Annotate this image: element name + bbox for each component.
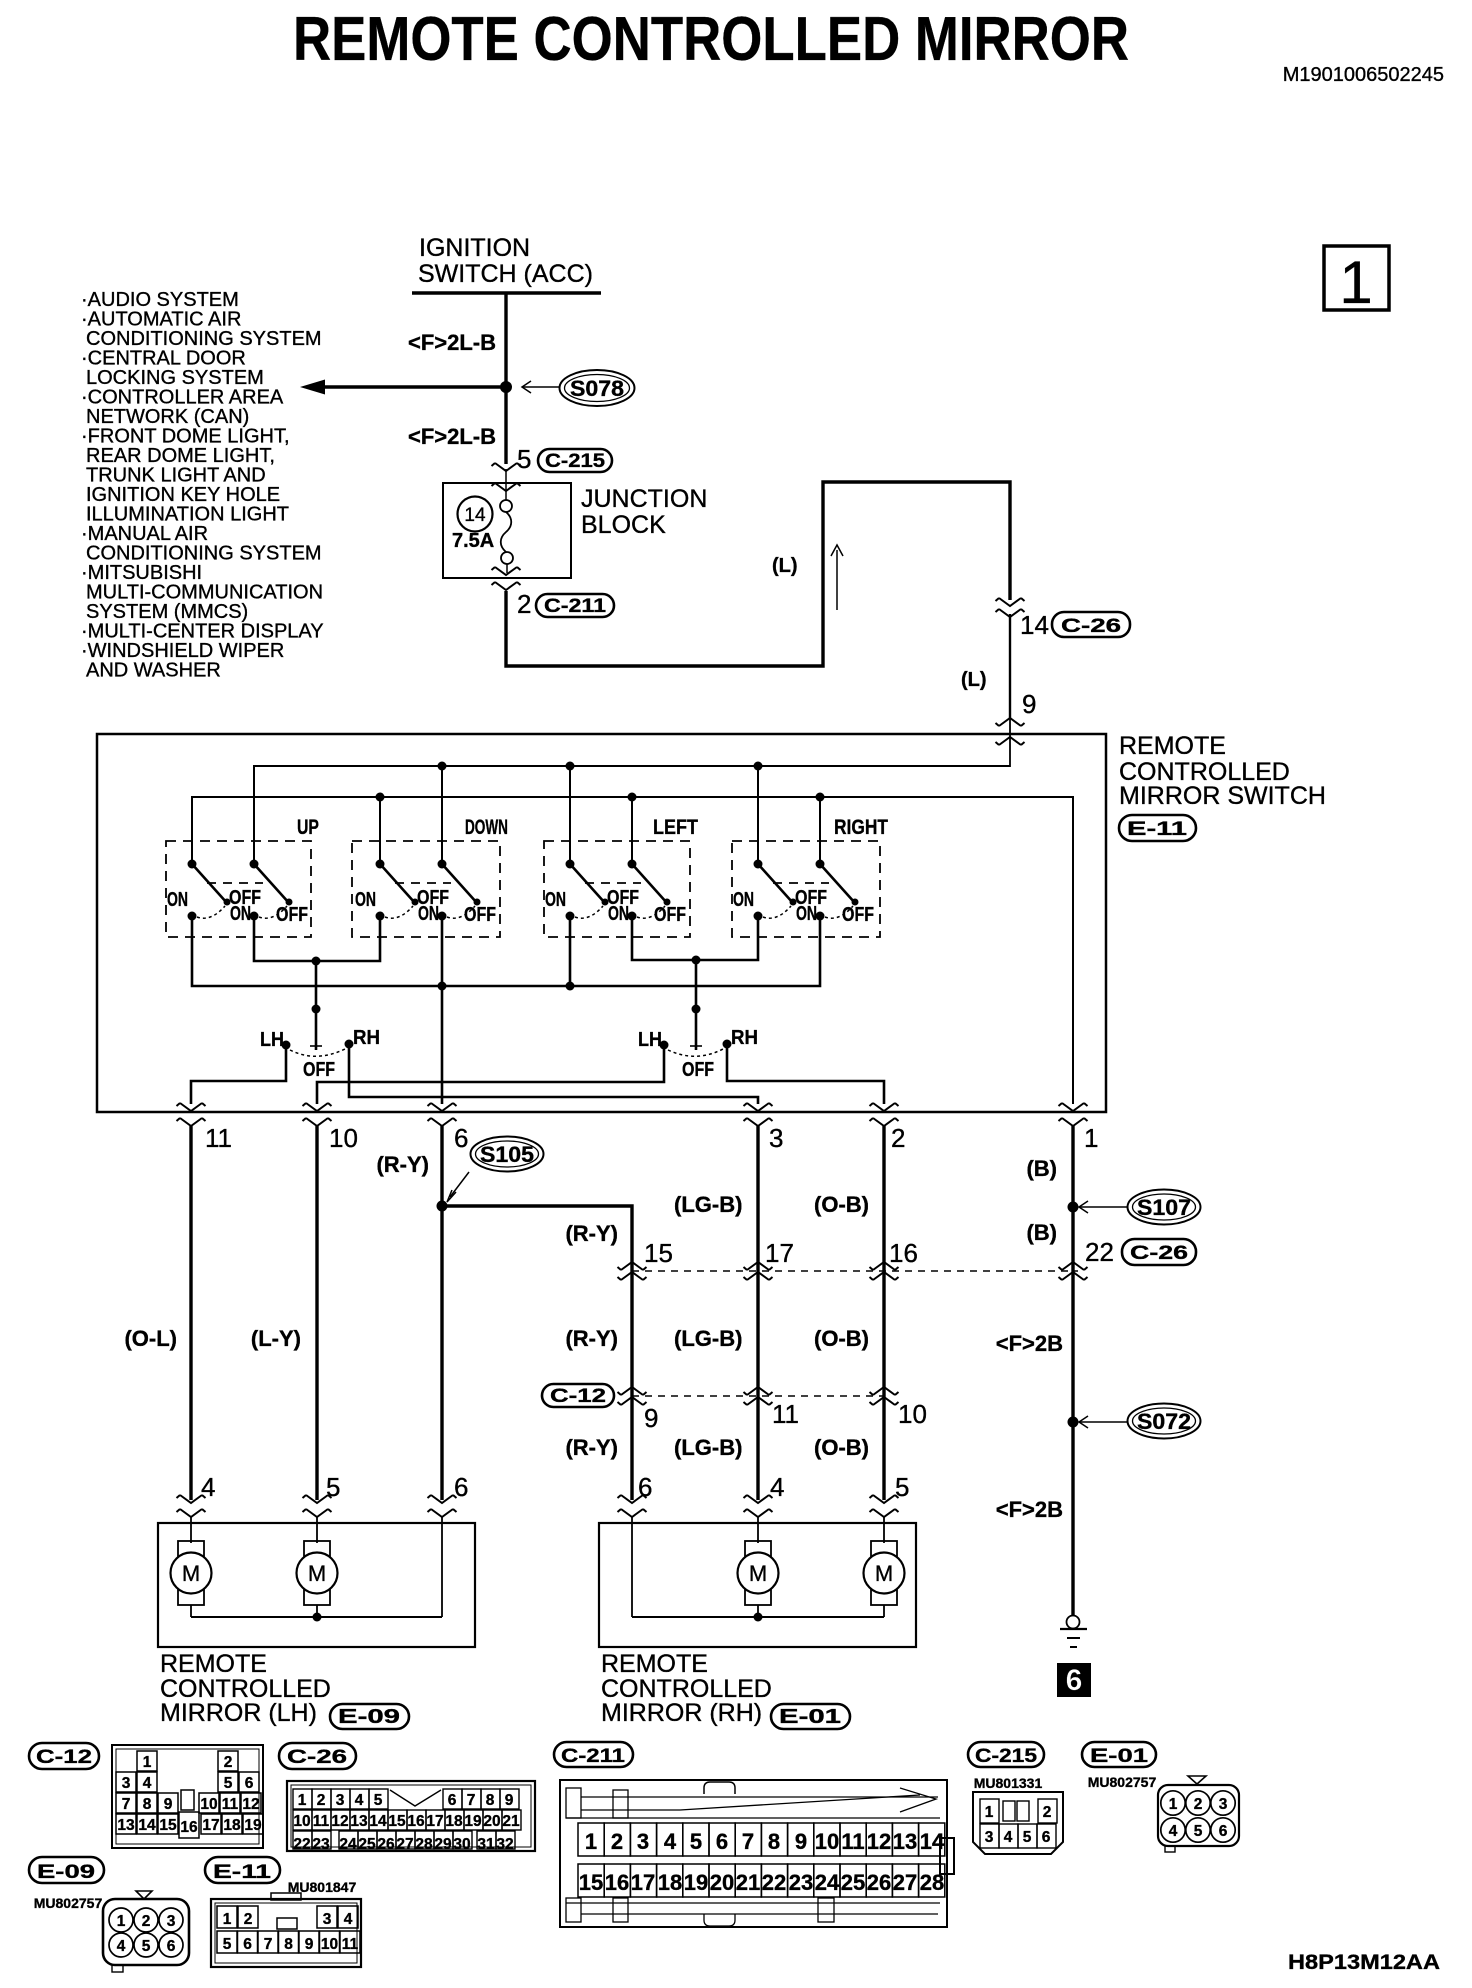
junction block box — [443, 483, 571, 578]
svg-text:9: 9 — [305, 1936, 314, 1953]
svg-text:1: 1 — [1339, 249, 1372, 316]
pin 11 chevrons — [177, 1103, 206, 1111]
svg-text:M: M — [182, 1561, 200, 1586]
svg-text:C-26: C-26 — [1061, 616, 1121, 637]
svg-text:MIRROR (RH): MIRROR (RH) — [601, 1699, 762, 1727]
svg-text:12: 12 — [331, 1813, 348, 1830]
svg-text:19: 19 — [244, 1817, 262, 1834]
svg-text:24: 24 — [815, 1870, 840, 1895]
svg-text:LH: LH — [638, 1029, 662, 1051]
svg-text:3: 3 — [122, 1775, 131, 1792]
svg-text:2: 2 — [317, 1792, 326, 1809]
svg-text:12: 12 — [867, 1829, 891, 1854]
svg-text:15: 15 — [159, 1817, 177, 1834]
svg-text:(B): (B) — [1026, 1156, 1057, 1181]
svg-text:12: 12 — [242, 1796, 259, 1813]
LEFT switch pole 1 — [545, 860, 639, 921]
svg-text:(R-Y): (R-Y) — [565, 1435, 618, 1460]
svg-text:5: 5 — [223, 1936, 232, 1953]
remote controlled mirror LH box E-09 — [158, 1523, 475, 1647]
svg-text:ON: ON — [230, 903, 251, 925]
remote controlled mirror switch box E-11 — [97, 734, 1106, 1112]
svg-text:2: 2 — [224, 1754, 233, 1771]
svg-text:REMOTE: REMOTE — [1119, 732, 1226, 760]
svg-text:8: 8 — [768, 1829, 780, 1854]
svg-text:10: 10 — [815, 1829, 839, 1854]
LH/RH selector switch 1 — [260, 1005, 380, 1082]
current direction arrow — [836, 550, 838, 610]
svg-text:11: 11 — [205, 1123, 232, 1153]
wire (LG-B) pin3 to RH mirror — [756, 1126, 759, 1500]
svg-text:6: 6 — [245, 1775, 254, 1792]
splice S072 — [1068, 1417, 1079, 1428]
svg-text:8: 8 — [284, 1936, 293, 1953]
svg-text:13: 13 — [350, 1813, 368, 1830]
svg-text:C-26: C-26 — [287, 1747, 347, 1768]
connector C-12 crossing (dashed) — [542, 1384, 614, 1407]
wire selector1 RH to pin 3 — [349, 1048, 758, 1104]
wire selector2 RH to pin 2 — [727, 1048, 884, 1104]
C-26 pin 17 chevrons — [744, 1262, 773, 1270]
svg-text:RH: RH — [731, 1027, 758, 1049]
svg-text:14: 14 — [138, 1817, 156, 1834]
svg-text:6: 6 — [1219, 1823, 1228, 1840]
svg-text:<F>2B: <F>2B — [996, 1331, 1063, 1356]
svg-text:3: 3 — [323, 1911, 332, 1928]
svg-text:E-11: E-11 — [213, 1862, 272, 1883]
svg-text:REMOTE: REMOTE — [601, 1650, 708, 1678]
connector E-09 pinout — [29, 1857, 189, 1972]
RIGHT switch unit — [732, 816, 888, 937]
svg-text:2: 2 — [517, 589, 531, 619]
LEFT/RIGHT output junction — [632, 916, 758, 960]
motor M vertical RH — [738, 1541, 779, 1617]
svg-text:LH: LH — [260, 1029, 284, 1051]
connector chevrons out of junction block — [492, 567, 521, 575]
C-12 pin 10 chevrons — [870, 1387, 899, 1395]
svg-text:ON: ON — [545, 889, 566, 911]
svg-text:10: 10 — [200, 1796, 217, 1813]
svg-text:11: 11 — [222, 1796, 239, 1813]
svg-text:20: 20 — [483, 1813, 500, 1830]
svg-text:11: 11 — [841, 1829, 864, 1854]
connector chevrons into mirror switch pin 9 — [996, 718, 1025, 726]
svg-text:(B): (B) — [1026, 1220, 1057, 1245]
svg-text:JUNCTION: JUNCTION — [581, 485, 707, 513]
splice S105 — [437, 1201, 448, 1212]
svg-text:27: 27 — [396, 1836, 413, 1853]
connector C-26 pinout — [279, 1743, 535, 1853]
LH mirror common bus — [191, 1616, 442, 1618]
svg-text:<F>2L-B: <F>2L-B — [408, 424, 496, 449]
svg-text:30: 30 — [453, 1836, 470, 1853]
svg-text:17: 17 — [631, 1870, 655, 1895]
svg-text:2: 2 — [611, 1829, 623, 1854]
bus wire to pin 1 — [192, 797, 1073, 1104]
wire selector2 LH to pin 10 — [317, 1049, 664, 1104]
svg-text:22: 22 — [762, 1870, 786, 1895]
svg-text:(O-L): (O-L) — [124, 1326, 177, 1351]
svg-text:16: 16 — [180, 1819, 198, 1836]
RH mirror common bus — [632, 1616, 884, 1618]
svg-text:1: 1 — [143, 1754, 152, 1771]
svg-text:2: 2 — [244, 1911, 253, 1928]
svg-text:LEFT: LEFT — [653, 816, 698, 839]
svg-text:15: 15 — [579, 1870, 603, 1895]
ground — [1067, 1616, 1080, 1629]
svg-text:17: 17 — [765, 1238, 794, 1268]
node — [376, 793, 385, 802]
svg-text:<F>2L-B: <F>2L-B — [408, 330, 496, 355]
svg-text:10: 10 — [329, 1123, 358, 1153]
svg-text:(O-B): (O-B) — [814, 1192, 869, 1217]
svg-text:3: 3 — [1219, 1796, 1228, 1813]
svg-text:MU802757: MU802757 — [34, 1895, 103, 1911]
svg-text:4: 4 — [117, 1938, 126, 1955]
svg-text:(LG-B): (LG-B) — [674, 1435, 742, 1460]
node — [566, 762, 575, 771]
svg-text:C-211: C-211 — [561, 1746, 626, 1767]
svg-text:9: 9 — [505, 1792, 514, 1809]
wire (R-Y) pin6 — [440, 1126, 443, 1500]
svg-text:26: 26 — [867, 1870, 891, 1895]
svg-text:29: 29 — [434, 1836, 452, 1853]
svg-text:4: 4 — [355, 1792, 364, 1809]
connector E-11 pinout — [205, 1857, 361, 1967]
svg-text:7: 7 — [742, 1829, 754, 1854]
svg-text:(L): (L) — [772, 555, 798, 577]
svg-text:14: 14 — [369, 1813, 387, 1830]
chevrons into RH mirror — [618, 1495, 647, 1503]
svg-text:ON: ON — [167, 889, 188, 911]
svg-text:26: 26 — [377, 1836, 395, 1853]
svg-text:OFF: OFF — [303, 1059, 335, 1081]
svg-text:14: 14 — [920, 1829, 945, 1854]
C-26 pin 22 chevrons — [1059, 1262, 1088, 1270]
splice S107 — [1068, 1202, 1079, 1213]
page number box 1 — [1324, 246, 1389, 310]
svg-text:ON: ON — [418, 903, 439, 925]
svg-text:S107: S107 — [1137, 1195, 1191, 1220]
node — [754, 762, 763, 771]
svg-text:C-12: C-12 — [550, 1386, 606, 1407]
svg-text:M1901006502245: M1901006502245 — [1283, 64, 1444, 86]
svg-text:ON: ON — [733, 889, 754, 911]
svg-text:OFF: OFF — [654, 904, 686, 926]
pin 1 chevrons — [1059, 1103, 1088, 1111]
wire DOWN pole2 common to pin 6 — [441, 916, 444, 1104]
svg-text:4: 4 — [664, 1829, 677, 1854]
svg-text:(R-Y): (R-Y) — [376, 1152, 429, 1177]
svg-text:ON: ON — [796, 903, 817, 925]
svg-text:5: 5 — [224, 1775, 233, 1792]
svg-text:7: 7 — [122, 1796, 131, 1813]
svg-text:(LG-B): (LG-B) — [674, 1326, 742, 1351]
svg-text:(R-Y): (R-Y) — [565, 1326, 618, 1351]
svg-text:SWITCH (ACC): SWITCH (ACC) — [418, 260, 593, 288]
svg-text:MIRROR (LH): MIRROR (LH) — [160, 1699, 317, 1727]
svg-text:6: 6 — [448, 1792, 457, 1809]
svg-text:6: 6 — [716, 1829, 728, 1854]
wires into RH mirror — [631, 1517, 633, 1617]
wire feed LEFT pole 2 — [631, 797, 633, 864]
svg-text:E-11: E-11 — [1127, 819, 1188, 840]
svg-text:(LG-B): (LG-B) — [674, 1192, 742, 1217]
svg-text:22: 22 — [1085, 1237, 1114, 1267]
wire (B) pin1 to ground — [1071, 1126, 1074, 1616]
connector C-215 pinout — [968, 1742, 1063, 1854]
wire (R-Y) branch to RH mirror — [442, 1206, 632, 1500]
svg-text:6: 6 — [1042, 1829, 1051, 1846]
svg-text:UP: UP — [297, 816, 319, 839]
svg-text:OFF: OFF — [276, 904, 308, 926]
fuse 14 7.5A — [500, 500, 512, 512]
svg-text:2: 2 — [142, 1913, 151, 1930]
C-12 pin 9 chevrons — [618, 1387, 647, 1395]
svg-text:2: 2 — [1043, 1804, 1052, 1821]
svg-text:1: 1 — [985, 1804, 994, 1821]
svg-text:11: 11 — [342, 1936, 359, 1953]
svg-text:<F>2B: <F>2B — [996, 1497, 1063, 1522]
node — [628, 793, 637, 802]
svg-text:6: 6 — [454, 1123, 468, 1153]
svg-text:E-09: E-09 — [37, 1862, 95, 1883]
svg-text:13: 13 — [893, 1829, 917, 1854]
wire LEFT pole1 common to bus — [569, 916, 572, 986]
svg-text:5: 5 — [326, 1472, 340, 1502]
ground reference 6 — [1057, 1663, 1091, 1697]
svg-text:(O-B): (O-B) — [814, 1326, 869, 1351]
svg-text:8: 8 — [486, 1792, 495, 1809]
svg-text:17: 17 — [202, 1817, 219, 1834]
wire feed LEFT pole 1 — [569, 766, 571, 864]
connector chevrons C-26 pin 14 — [996, 598, 1025, 606]
LEFT switch pole 2 — [608, 860, 686, 927]
svg-text:19: 19 — [684, 1870, 708, 1895]
svg-text:4: 4 — [1004, 1829, 1013, 1846]
svg-text:21: 21 — [502, 1813, 520, 1830]
svg-text:M: M — [308, 1561, 326, 1586]
svg-text:RIGHT: RIGHT — [834, 816, 888, 839]
svg-text:7: 7 — [467, 1792, 476, 1809]
svg-text:25: 25 — [358, 1836, 376, 1853]
chevrons into LH mirror — [177, 1495, 206, 1503]
svg-text:17: 17 — [426, 1813, 443, 1830]
connector chevrons into junction block — [492, 463, 521, 471]
svg-text:10: 10 — [898, 1399, 927, 1429]
svg-text:14: 14 — [464, 505, 486, 526]
svg-text:H8P13M12AA: H8P13M12AA — [1288, 1951, 1440, 1974]
svg-text:MU801331: MU801331 — [974, 1775, 1043, 1791]
UP/DOWN output junction — [254, 916, 380, 961]
svg-text:OFF: OFF — [682, 1059, 714, 1081]
svg-text:5: 5 — [1023, 1829, 1032, 1846]
svg-text:5: 5 — [1194, 1823, 1203, 1840]
svg-text:E-01: E-01 — [1090, 1746, 1149, 1767]
svg-text:16: 16 — [889, 1238, 918, 1268]
svg-text:22: 22 — [293, 1836, 310, 1853]
RIGHT switch pole 1 — [733, 860, 827, 921]
svg-text:E-09: E-09 — [338, 1706, 400, 1728]
svg-text:5: 5 — [517, 444, 531, 474]
svg-text:18: 18 — [445, 1813, 463, 1830]
node — [438, 762, 447, 771]
splice S078 callout — [523, 386, 560, 388]
wires into LH mirror — [190, 1517, 192, 1543]
DOWN switch unit — [352, 816, 508, 937]
svg-text:21: 21 — [736, 1870, 760, 1895]
RIGHT switch pole 2 — [796, 860, 874, 927]
svg-text:10: 10 — [321, 1936, 338, 1953]
svg-text:7.5A: 7.5A — [452, 530, 494, 552]
C-26 pin 15 chevrons — [618, 1262, 647, 1270]
LH/RH selector switch 2 — [638, 1005, 758, 1082]
svg-text:C-12: C-12 — [36, 1747, 92, 1768]
LEFT switch unit — [544, 816, 698, 937]
svg-text:4: 4 — [344, 1911, 353, 1928]
svg-text:24: 24 — [339, 1836, 357, 1853]
svg-text:E-01: E-01 — [779, 1706, 841, 1728]
svg-text:(L-Y): (L-Y) — [251, 1326, 301, 1351]
svg-text:18: 18 — [658, 1870, 682, 1895]
svg-text:C-211: C-211 — [544, 596, 607, 617]
svg-text:AND WASHER: AND WASHER — [86, 660, 221, 682]
svg-text:18: 18 — [223, 1817, 241, 1834]
svg-text:8: 8 — [143, 1796, 152, 1813]
node — [816, 793, 825, 802]
svg-text:15: 15 — [644, 1238, 673, 1268]
svg-text:(R-Y): (R-Y) — [565, 1221, 618, 1246]
svg-text:OFF: OFF — [464, 904, 496, 926]
wire (L) to mirror switch pin 9 — [1009, 614, 1011, 719]
svg-text:S078: S078 — [570, 376, 624, 401]
svg-text:9: 9 — [644, 1403, 658, 1433]
pin 10 chevrons — [303, 1103, 332, 1111]
svg-text:1: 1 — [117, 1913, 126, 1930]
connector E-01 pinout — [1082, 1742, 1239, 1852]
svg-text:28: 28 — [920, 1870, 944, 1895]
wire selector1 LH to pin 11 — [191, 1049, 286, 1104]
wire feed RIGHT pole 1 — [757, 766, 759, 864]
pin 2 chevrons — [870, 1103, 899, 1111]
svg-text:15: 15 — [388, 1813, 406, 1830]
svg-text:OFF: OFF — [842, 904, 874, 926]
wire feed DOWN pole 1 — [379, 797, 381, 864]
DOWN switch pole 2 — [418, 860, 496, 927]
wire (O-L) pin11 to LH mirror — [189, 1126, 192, 1500]
svg-text:6: 6 — [243, 1936, 252, 1953]
wire from ignition switch — [504, 293, 507, 464]
svg-text:4: 4 — [201, 1472, 215, 1502]
svg-text:IGNITION: IGNITION — [419, 234, 530, 262]
svg-text:3: 3 — [167, 1913, 176, 1930]
wire (L-Y) pin10 to LH mirror — [315, 1126, 318, 1500]
svg-text:1: 1 — [1169, 1796, 1178, 1813]
connector C-26 crossing (dashed) — [632, 1270, 1078, 1272]
svg-text:3: 3 — [769, 1123, 783, 1153]
svg-text:M: M — [875, 1561, 893, 1586]
svg-text:14: 14 — [1020, 610, 1049, 640]
svg-text:27: 27 — [893, 1870, 917, 1895]
svg-text:REMOTE: REMOTE — [160, 1650, 267, 1678]
svg-text:16: 16 — [605, 1870, 629, 1895]
svg-text:1: 1 — [1084, 1123, 1098, 1153]
svg-text:4: 4 — [1169, 1823, 1178, 1840]
svg-text:M: M — [749, 1561, 767, 1586]
svg-text:3: 3 — [637, 1829, 649, 1854]
svg-text:S105: S105 — [480, 1142, 534, 1167]
svg-text:1: 1 — [298, 1792, 307, 1809]
common bus to pin 6 — [192, 916, 820, 986]
UP switch unit — [166, 816, 319, 937]
svg-text:19: 19 — [464, 1813, 482, 1830]
motor M horizontal LH — [297, 1541, 338, 1617]
svg-text:31: 31 — [477, 1836, 495, 1853]
svg-text:(O-B): (O-B) — [814, 1435, 869, 1460]
wire (O-B) pin2 to RH mirror — [882, 1126, 885, 1500]
svg-text:3: 3 — [336, 1792, 345, 1809]
svg-text:13: 13 — [117, 1817, 135, 1834]
svg-text:16: 16 — [407, 1813, 425, 1830]
svg-text:DOWN: DOWN — [465, 816, 508, 839]
svg-text:BLOCK: BLOCK — [581, 511, 666, 539]
connector C-211 pinout — [554, 1742, 954, 1927]
UP switch pole 1 — [167, 860, 261, 921]
svg-text:MIRROR SWITCH: MIRROR SWITCH — [1119, 782, 1326, 810]
svg-text:2: 2 — [1194, 1796, 1203, 1813]
C-26 pin 16 chevrons — [870, 1262, 899, 1270]
svg-text:9: 9 — [795, 1829, 807, 1854]
motor M horizontal RH — [864, 1541, 905, 1617]
svg-text:6: 6 — [1066, 1664, 1083, 1697]
C-12 pin 11 chevrons — [744, 1387, 773, 1395]
wire feed RIGHT pole 2 — [819, 797, 821, 864]
node — [438, 982, 447, 991]
svg-text:5: 5 — [690, 1829, 702, 1854]
svg-text:1: 1 — [585, 1829, 597, 1854]
svg-text:S072: S072 — [1137, 1409, 1191, 1434]
svg-text:C-215: C-215 — [975, 1746, 1038, 1767]
svg-text:23: 23 — [789, 1870, 813, 1895]
wire feed DOWN pole 2 — [441, 766, 443, 864]
pin 3 chevrons — [744, 1103, 773, 1111]
svg-text:9: 9 — [164, 1796, 173, 1813]
svg-text:C-215: C-215 — [545, 451, 606, 472]
svg-text:3: 3 — [985, 1829, 994, 1846]
svg-text:28: 28 — [415, 1836, 433, 1853]
svg-text:25: 25 — [841, 1870, 865, 1895]
svg-text:C-26: C-26 — [1130, 1243, 1188, 1264]
svg-text:10: 10 — [293, 1813, 310, 1830]
svg-text:ON: ON — [355, 889, 376, 911]
svg-text:4: 4 — [143, 1775, 152, 1792]
svg-text:23: 23 — [312, 1836, 330, 1853]
wire branch to other systems — [322, 385, 506, 388]
svg-text:32: 32 — [496, 1836, 513, 1853]
svg-text:MU802757: MU802757 — [1088, 1774, 1157, 1790]
wire (L) from junction block to C-26 — [506, 482, 1010, 666]
svg-text:2: 2 — [891, 1123, 905, 1153]
svg-text:5: 5 — [142, 1938, 151, 1955]
svg-text:20: 20 — [710, 1870, 734, 1895]
bus wire from pin 9 — [254, 766, 1010, 864]
node — [566, 982, 575, 991]
motor M vertical LH — [171, 1541, 212, 1617]
svg-text:5: 5 — [374, 1792, 383, 1809]
svg-text:RH: RH — [353, 1027, 380, 1049]
UP switch pole 2 — [230, 860, 308, 927]
connector C-12 pinout — [29, 1743, 263, 1848]
